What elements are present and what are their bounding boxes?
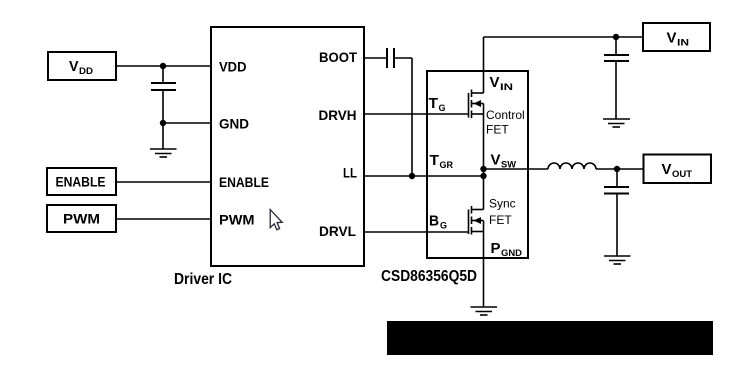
node VOUT source box [644, 155, 712, 184]
wire PWM [116, 218, 211, 220]
svg-text:VDD: VDD [219, 59, 247, 75]
svg-text:CSD86356Q5D: CSD86356Q5D [381, 268, 477, 285]
transistor Q1 control FET [469, 90, 484, 119]
wire VIN cap top [615, 37, 617, 55]
wire node A to capacitor [162, 66, 164, 83]
svg-text:Sync: Sync [489, 197, 516, 211]
redaction black bar [387, 321, 713, 355]
wire node B to ground [162, 123, 164, 149]
wire VIN horizontal [484, 36, 644, 38]
capacitor C3 input [604, 55, 629, 61]
svg-text:DD: DD [79, 66, 93, 77]
transistor Q2 sync FET [469, 206, 484, 235]
svg-text:DRVH: DRVH [319, 107, 357, 123]
svg-text:Driver IC: Driver IC [174, 271, 232, 288]
ground symbol 1 [150, 149, 177, 157]
svg-text:T: T [430, 152, 440, 169]
svg-text:V: V [667, 30, 677, 47]
wire inductor to VOUT [596, 168, 644, 170]
wire GND to driver [163, 122, 211, 124]
node A junction VDD [160, 63, 166, 69]
svg-text:BOOT: BOOT [319, 49, 357, 65]
svg-text:DRVL: DRVL [319, 223, 356, 239]
svg-text:LL: LL [343, 165, 357, 181]
cursor pointer [270, 210, 282, 230]
ground symbol 2 [603, 119, 630, 127]
svg-text:V: V [69, 58, 79, 75]
wire BOOT [364, 57, 387, 59]
svg-text:V: V [491, 152, 501, 169]
node F junction TGR [480, 173, 486, 179]
wire control FET source to VSW [483, 114, 485, 210]
svg-text:G: G [439, 103, 446, 114]
svg-text:T: T [429, 95, 439, 112]
svg-text:ENABLE: ENABLE [219, 174, 269, 190]
svg-text:P: P [491, 240, 501, 257]
node G junction VOUT cap [614, 166, 620, 172]
op-amp U1 Driver IC box [211, 27, 364, 266]
svg-text:GND: GND [219, 116, 249, 132]
capacitor C1 VDD bypass [151, 83, 176, 90]
svg-text:V: V [662, 161, 672, 178]
wire VOUT cap to ground [616, 194, 618, 257]
svg-text:G: G [440, 221, 447, 232]
svg-text:ENABLE: ENABLE [56, 174, 106, 190]
wire DRVH to TG [364, 113, 469, 115]
node D junction VIN cap [613, 34, 619, 40]
node PWM source box [47, 205, 116, 232]
wire VSW out [484, 168, 549, 170]
capacitor C4 output [604, 187, 629, 194]
wire bootstrap cap to LL [394, 57, 412, 59]
wire VIN vertical [483, 37, 485, 93]
ground symbol 4 [604, 256, 631, 264]
wire LL to TGR [364, 175, 484, 177]
svg-text:B: B [429, 213, 439, 230]
svg-text:IN: IN [677, 38, 689, 49]
svg-text:GR: GR [440, 160, 454, 171]
svg-text:GND: GND [501, 248, 522, 259]
wire VIN cap to ground [615, 61, 617, 119]
inductor L1 [548, 163, 596, 169]
svg-text:SW: SW [501, 160, 516, 171]
svg-text:V: V [490, 74, 500, 91]
capacitor C2 bootstrap [387, 48, 394, 68]
ground symbol 3 [471, 307, 498, 315]
svg-text:PWM: PWM [219, 212, 255, 228]
svg-text:Control: Control [486, 108, 525, 122]
node E junction VSW out [480, 166, 486, 172]
wire VDD source to driver [116, 65, 211, 67]
svg-text:FET: FET [489, 213, 512, 227]
wire DRVL to BG [364, 231, 469, 233]
wire capacitor to GND node [162, 90, 164, 123]
node VIN source box [643, 23, 710, 51]
svg-text:IN: IN [500, 82, 513, 93]
node B junction GND [160, 120, 166, 126]
node ENABLE source box [47, 168, 116, 195]
svg-text:FET: FET [486, 123, 509, 137]
wire VOUT cap top [616, 169, 618, 187]
transistor U2 CSD86356Q5D block [427, 71, 528, 258]
node C junction boot-LL [409, 173, 415, 179]
node VDD source box [48, 52, 116, 80]
wire ENABLE [116, 181, 211, 183]
svg-text:PWM: PWM [63, 211, 100, 227]
svg-text:OUT: OUT [672, 169, 692, 180]
wire sync FET source to PGND ground [483, 232, 485, 308]
